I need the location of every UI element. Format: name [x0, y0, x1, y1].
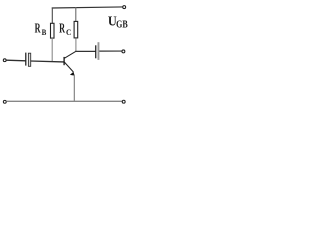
svg-text:B: B — [42, 28, 47, 37]
svg-text:R: R — [59, 22, 65, 37]
svg-text:GB: GB — [116, 19, 128, 31]
svg-text:R: R — [35, 22, 41, 37]
svg-text:C: C — [66, 28, 72, 37]
